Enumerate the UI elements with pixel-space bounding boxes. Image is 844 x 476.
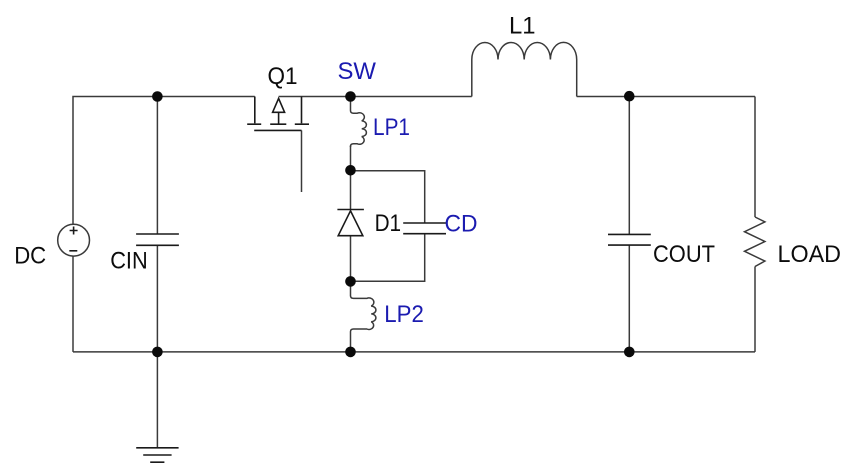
- wire top rail right segment: [577, 96, 755, 98]
- svg-text:DC: DC: [14, 243, 46, 270]
- wire CD top branch: [351, 171, 425, 223]
- transistor Q1 body stem: [278, 112, 280, 124]
- wire top rail middle segment (SW rail): [279, 96, 472, 98]
- svg-text:CIN: CIN: [110, 248, 148, 275]
- transistor Q1 right terminal: [295, 97, 309, 125]
- wire ground stem: [156, 352, 158, 448]
- DC source plus sign: [70, 227, 78, 235]
- DC source V1 circle: [58, 224, 90, 256]
- wire Q1 gate drop: [301, 130, 303, 192]
- diode D1 triangle: [338, 211, 363, 236]
- transistor Q1 middle contact bar: [270, 123, 286, 125]
- node junction dot COUT bottom: [624, 347, 635, 358]
- DC source minus sign: [69, 250, 77, 252]
- node junction dot SW: [345, 91, 356, 102]
- svg-text:COUT: COUT: [653, 241, 715, 268]
- capacitor COUT: [608, 234, 651, 245]
- ground symbol: [136, 448, 178, 462]
- wire CIN top lead: [156, 97, 158, 235]
- wire CIN bottom lead: [156, 245, 158, 352]
- svg-text:CD: CD: [445, 210, 478, 237]
- wire CD bottom branch: [351, 234, 425, 282]
- wire D1 bottom lead: [350, 236, 352, 282]
- node junction dot COUT top: [624, 91, 635, 102]
- diode D1 cathode bar: [337, 209, 364, 211]
- node junction dot LP2 top: [345, 276, 356, 287]
- transistor Q1 body arrow: [273, 98, 285, 112]
- node junction dot LP2 bottom: [345, 347, 356, 358]
- wire left rail lower segment: [72, 256, 74, 352]
- transistor Q1 left terminal: [247, 97, 261, 125]
- inductor L1: [472, 42, 577, 96]
- wire COUT top lead: [628, 97, 630, 235]
- inductor LP1: [351, 97, 367, 148]
- inductor LP2: [351, 281, 376, 352]
- svg-text:LP1: LP1: [373, 114, 410, 141]
- svg-text:Q1: Q1: [268, 63, 298, 90]
- svg-text:L1: L1: [509, 13, 536, 40]
- node junction dot CIN bottom: [152, 347, 163, 358]
- wire COUT bottom lead: [628, 245, 630, 352]
- capacitor CD plates: [403, 223, 446, 234]
- svg-text:D1: D1: [375, 210, 402, 237]
- transistor Q1 gate plate: [254, 129, 301, 131]
- wire top rail left segment: [73, 97, 255, 225]
- svg-text:SW: SW: [338, 58, 377, 85]
- wire right rail lower segment: [754, 267, 756, 352]
- node junction dot CIN top: [152, 91, 163, 102]
- wire D1 top lead: [350, 170, 352, 209]
- capacitor CIN: [136, 234, 179, 245]
- wire right rail upper segment: [754, 97, 756, 218]
- wire LP1 bottom lead: [350, 146, 352, 171]
- svg-text:LP2: LP2: [384, 301, 424, 328]
- resistor LOAD: [745, 217, 765, 267]
- svg-text:LOAD: LOAD: [778, 241, 842, 268]
- node junction dot LP1 bottom: [345, 165, 356, 176]
- wire bottom rail: [73, 351, 755, 353]
